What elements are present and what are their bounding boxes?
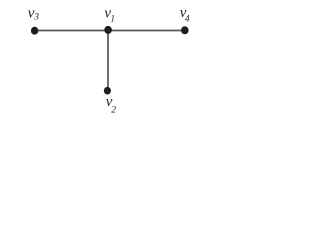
wire: vertical edge v1-v2	[107, 31, 109, 91]
svg-text:4: 4	[185, 15, 190, 25]
svg-text:3: 3	[33, 13, 39, 23]
node v3	[31, 27, 38, 35]
node v2	[104, 87, 111, 95]
node v1	[104, 26, 112, 34]
wire: horizontal edge v3-v1-v4	[35, 30, 185, 32]
svg-text:2: 2	[111, 105, 116, 115]
svg-text:1: 1	[110, 15, 115, 25]
node v4	[181, 26, 189, 34]
